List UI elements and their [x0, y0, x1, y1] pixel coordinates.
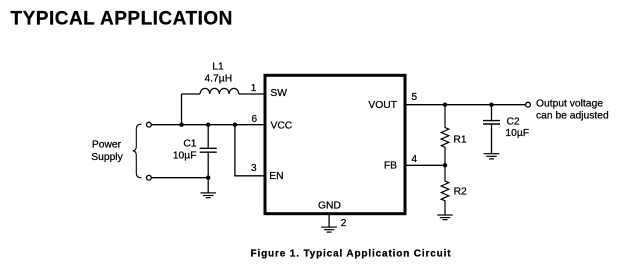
svg-text:C2: C2	[507, 117, 520, 128]
svg-text:Supply: Supply	[91, 152, 123, 163]
svg-text:EN: EN	[269, 171, 283, 182]
svg-text:can be adjusted: can be adjusted	[536, 111, 609, 122]
svg-text:2: 2	[341, 218, 347, 229]
svg-text:FB: FB	[384, 161, 397, 172]
svg-text:5: 5	[411, 92, 417, 103]
svg-text:4: 4	[411, 154, 417, 165]
svg-text:C1: C1	[183, 138, 196, 149]
svg-text:R2: R2	[454, 186, 467, 197]
svg-text:6: 6	[251, 114, 257, 125]
svg-text:TYPICAL APPLICATION: TYPICAL APPLICATION	[11, 9, 233, 30]
svg-text:3: 3	[251, 163, 257, 174]
svg-text:VOUT: VOUT	[368, 100, 397, 111]
svg-text:Figure 1. Typical Application: Figure 1. Typical Application Circuit	[251, 249, 452, 260]
svg-text:R1: R1	[453, 134, 466, 145]
svg-text:4.7µH: 4.7µH	[204, 74, 232, 85]
svg-text:L1: L1	[212, 61, 224, 72]
svg-text:SW: SW	[270, 88, 287, 99]
svg-text:GND: GND	[318, 201, 341, 212]
svg-text:10µF: 10µF	[505, 128, 529, 139]
svg-text:Output voltage: Output voltage	[536, 98, 603, 109]
svg-text:VCC: VCC	[271, 120, 293, 131]
svg-text:1: 1	[251, 83, 257, 94]
svg-text:Power: Power	[92, 140, 122, 151]
svg-text:10µF: 10µF	[173, 151, 197, 162]
